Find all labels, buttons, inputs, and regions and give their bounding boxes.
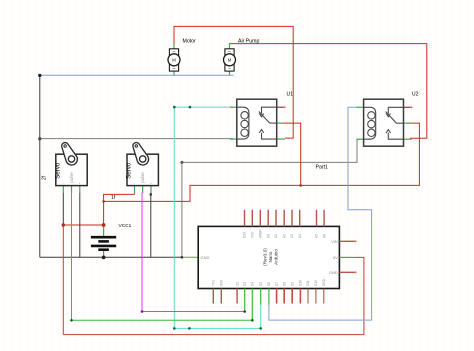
wire: ground frame left vertical (black) [39,75,41,257]
svg-text:+: + [150,181,152,185]
svg-text:M: M [172,58,176,63]
battery VCC1 [91,223,132,257]
wire: motors common rail (steel blue) [40,74,234,76]
wire: +V to servo2 power (red) [104,194,135,225]
svg-text:D7: D7 [275,282,279,286]
svg-text:3V3: 3V3 [251,232,255,238]
svg-text:GND: GND [322,278,326,286]
junction node: motors common / ground frame [38,74,41,77]
svg-text:D13: D13 [243,232,247,238]
arduino top pin legs [245,210,325,227]
svg-text:Servo: Servo [55,162,62,179]
svg-text:D9: D9 [290,282,294,286]
wire: relay U1 coil return to ground frame (gray) [40,138,234,140]
svg-text:2f: 2f [42,175,48,180]
svg-text:M: M [228,58,232,63]
junction node: aqua mid top [189,106,192,109]
wire: +V down left side (red) [62,225,64,335]
junction node: aqua end bottom [259,327,262,330]
wire: servo1 pulse to Arduino D4 (green) [72,193,253,321]
junction node: ground rail / arduino gnd [181,256,184,259]
svg-text:D10: D10 [299,280,303,286]
motor M2 "Air Pump" [224,39,260,76]
svg-text:Motor: Motor [183,39,197,45]
wire: motor M1 top to relay U1 NC contact (red) [174,26,293,138]
wire: +V feed to relay commons (red) [104,123,420,201]
junction node: U1 common tee [299,184,302,187]
wire: relay U2 coil to Arduino D6 (blue) [269,107,372,320]
svg-text:U1: U1 [287,92,294,98]
arduino pin labels [201,229,339,286]
wire: ground link to Arduino GND (green) [182,256,198,258]
junction node: coil return / ground frame [38,137,41,140]
junction node: magenta end [243,310,246,313]
junction node: servo2 gnd bend [150,193,153,196]
servo 2 [126,143,159,195]
svg-text:A0: A0 [266,234,270,238]
svg-text:Servo: Servo [126,162,133,179]
servo 1 [55,143,88,193]
relay U1 [230,92,293,147]
wire: air pump top to relay U2 NC contact (red) [230,44,427,139]
wire: servo2 pulse to Arduino D3 (magenta) [142,193,245,312]
svg-text:1f: 1f [111,195,116,201]
wire: ground rail bottom (black) [40,256,182,258]
svg-text:Arduino: Arduino [273,249,278,265]
wire: +V battery to servo1 junction (red) [63,224,103,226]
motor M1 "Motor" [168,39,196,76]
svg-text:D6: D6 [267,282,271,286]
wire: relay U2 coil return Part1 (gray) [182,139,359,162]
wire: gray drop to ground junction (gray) [181,162,183,257]
arduino nano U3 [198,226,339,288]
svg-text:pulse: pulse [69,172,74,183]
svg-text:A4: A4 [298,234,302,238]
arduino right pin legs [339,241,355,272]
svg-text:+: + [79,181,81,185]
junction node: green corner [70,319,73,322]
svg-text:D12: D12 [314,280,318,286]
wire: +V bottom run to Arduino 5V (dark red) [63,257,364,334]
node: unconnected pin markers [283,106,413,274]
junction node: battery minus on rail [102,256,106,260]
svg-text:Part1: Part1 [316,164,329,170]
wire: servo1 ground (black) [79,193,81,258]
svg-text:RX0: RX0 [220,280,224,286]
svg-text:D2: D2 [235,282,239,286]
junction node: gray part1 corner [180,161,183,164]
wire: relay U1 common branch (red) [281,123,301,185]
svg-text:GND: GND [329,270,338,275]
svg-text:A3: A3 [290,234,294,238]
svg-text:GND: GND [201,255,210,260]
junction node: green end [251,319,254,322]
svg-text:U2: U2 [412,92,419,98]
svg-text:AREF: AREF [259,229,263,238]
relay U2 [357,92,419,147]
junction node: +V battery top [102,223,106,227]
svg-text:D3: D3 [243,282,247,286]
svg-text:VIN: VIN [331,239,338,244]
junction node: +V relay feed branch [102,200,105,203]
svg-text:-: - [134,181,135,185]
svg-text:TX1: TX1 [212,280,216,286]
svg-text:D8: D8 [282,282,286,286]
svg-text:5V: 5V [333,255,338,260]
svg-text:A6: A6 [322,234,326,238]
svg-text:A2: A2 [282,234,286,238]
wire: servo2 ground (black) [150,193,152,258]
svg-text:D4: D4 [251,282,255,286]
svg-text:D5: D5 [259,282,263,286]
svg-text:D11: D11 [306,280,310,286]
wire: servo1 power lead (black) [62,193,64,226]
svg-text:VCC1: VCC1 [119,223,132,229]
svg-text:-: - [63,181,64,185]
svg-text:(Rev3.0): (Rev3.0) [263,248,268,266]
junction node: aqua corner bottom [173,327,176,330]
junction node: aqua mid bottom [188,327,191,330]
junction node: magenta corner [141,310,144,313]
svg-text:A5: A5 [315,234,319,238]
arduino bottom pin legs [213,289,323,321]
svg-text:Air Pump: Air Pump [238,39,259,45]
svg-text:pulse: pulse [140,172,145,183]
svg-text:A1: A1 [274,234,278,238]
junction node: aqua corner top [173,106,176,109]
junction node: +V servo1 [62,223,65,226]
svg-text:Nano: Nano [268,251,273,262]
wire: relay U1 coil to Arduino D5 (aquamarine) [174,107,260,328]
